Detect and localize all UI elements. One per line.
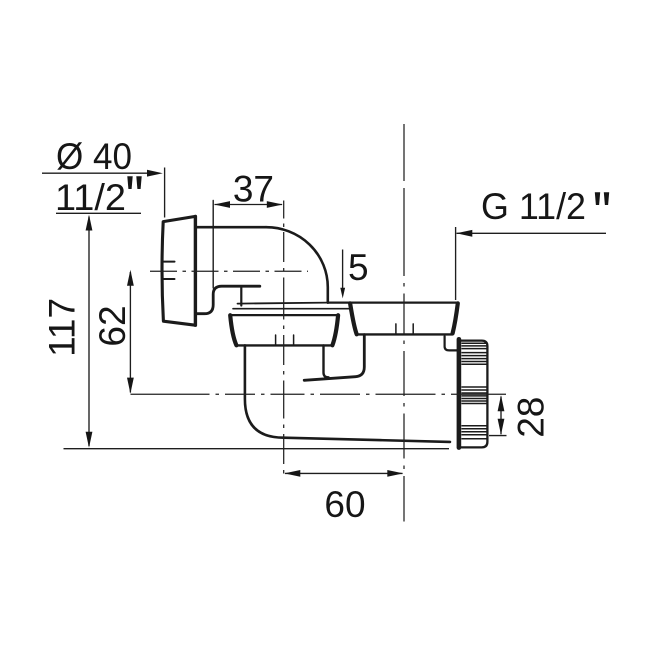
svg-text:117: 117 <box>42 298 83 357</box>
arrow 62 down <box>127 378 134 394</box>
extension line from flange top <box>164 168 166 218</box>
dip tube edge <box>304 335 364 381</box>
arrow 37 right <box>267 201 283 208</box>
cup knurl tick 1 <box>395 324 397 334</box>
cup knurl tick 2 <box>412 324 414 334</box>
elbow outer curve <box>266 227 328 302</box>
left nut left edge <box>230 315 236 345</box>
62 dimension line <box>129 272 131 393</box>
outlet nut flange bar <box>457 339 462 447</box>
svg-text:62: 62 <box>92 305 133 346</box>
dimension lines <box>42 168 606 474</box>
joint line / 37 extension <box>212 201 214 289</box>
svg-text:37: 37 <box>233 168 274 209</box>
arrow 5 down <box>340 288 345 299</box>
28 bottom extension line <box>489 435 507 437</box>
dim line under "11/2" <box>56 212 141 214</box>
arrow 60 left <box>284 470 300 477</box>
G extension line <box>455 227 457 300</box>
arrow 37 left <box>214 201 230 208</box>
arrow 62 up <box>127 270 134 286</box>
arrowheads <box>86 170 505 477</box>
outlet axis centerline <box>131 393 507 395</box>
arrow 28 up <box>498 395 505 411</box>
arrow G left <box>456 230 472 237</box>
arrow Ø40 right <box>147 170 163 177</box>
dim line under "Ø 40" <box>42 172 159 174</box>
G leader line <box>457 232 607 234</box>
outlet nut body outline <box>461 341 487 448</box>
right cup left edge <box>350 303 357 334</box>
wall flange right edge <box>194 216 197 325</box>
arrow 117 up <box>86 215 93 231</box>
svg-text:Ø 40: Ø 40 <box>56 136 132 177</box>
inlet pipe bottom / inner step <box>195 286 259 314</box>
tub drain axis centerline <box>403 124 405 522</box>
arrow 117 down <box>86 432 93 448</box>
centerlines <box>131 124 507 522</box>
inlet axis centerline <box>150 270 308 272</box>
28 dimension line <box>500 397 502 435</box>
left nut knurl tick 1 <box>275 335 277 345</box>
left nut knurl tick 2 <box>293 335 295 345</box>
left nut bottom edge <box>236 344 332 346</box>
117 dimension line <box>88 217 90 447</box>
svg-text:5: 5 <box>348 247 369 288</box>
inlet pipe top line <box>195 226 266 229</box>
flange tick lower <box>164 278 175 280</box>
bottom extension line <box>64 448 450 450</box>
svg-text:60: 60 <box>324 484 365 525</box>
37 dimension line <box>215 204 283 206</box>
elbow spigot edge <box>240 288 242 306</box>
5 leader line <box>342 250 344 290</box>
svg-text:11/2: 11/2 <box>55 177 126 218</box>
outlet step <box>445 336 458 350</box>
right cup right edge <box>453 303 458 333</box>
svg-text:28: 28 <box>511 397 552 438</box>
flange tick upper <box>164 261 175 263</box>
left nut top edge <box>230 314 339 316</box>
union ring line upper <box>238 303 328 304</box>
outlet nut thread lines <box>461 343 487 439</box>
arrow 28 down <box>498 419 505 435</box>
wall flange body <box>162 216 195 325</box>
arrow 60 right <box>387 470 403 477</box>
trap body left edge and bottom <box>245 345 450 442</box>
trap body right edge <box>324 345 329 377</box>
svg-text:G 11/2: G 11/2 <box>481 186 586 227</box>
cup ledge / top line <box>328 302 459 304</box>
right cup bottom edge <box>357 333 453 335</box>
label inch mark left <box>127 176 141 189</box>
elbow axis centerline <box>283 201 285 480</box>
label inch mark right <box>595 192 609 205</box>
left nut right edge <box>332 315 338 345</box>
union ring line lower <box>233 308 351 310</box>
60 dimension line <box>285 472 403 474</box>
